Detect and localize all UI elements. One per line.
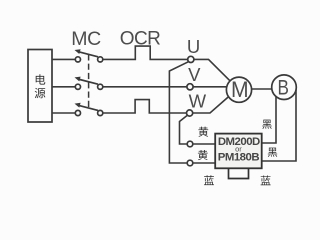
svg-text:V: V	[188, 64, 201, 85]
wire T-phase: source box to MC pole 3	[52, 112, 75, 114]
wire R-phase: source box to MC pole 1	[52, 58, 75, 60]
label black 黑 (top)	[262, 120, 271, 129]
svg-text:PM180B: PM180B	[218, 152, 260, 164]
wire + OCR heater element phase U	[103, 46, 188, 59]
wire MC to node V (straight, no heater)	[103, 86, 187, 88]
label yellow 黄 (top)	[198, 127, 208, 137]
wire terminal 2 to sensor box	[193, 162, 215, 164]
power source box 电源	[28, 50, 52, 123]
sensor box DM200D / PM180B	[215, 134, 262, 169]
wire node V to motor	[193, 86, 227, 88]
yellow lead terminal circle 1	[187, 141, 193, 147]
label yellow 黄 (bottom)	[198, 150, 208, 160]
label 源	[35, 88, 46, 98]
sensor bottom connector tab	[229, 168, 249, 178]
motor M circle	[226, 77, 251, 102]
node V terminal circle	[187, 84, 193, 90]
MC mechanical linkage (dashed)	[88, 54, 90, 109]
brake B circle	[272, 75, 297, 100]
label black 黑 (bottom)	[268, 148, 277, 157]
node U terminal circle	[188, 56, 194, 62]
wire S-phase: source box to MC pole 2	[52, 86, 75, 88]
wire node U to motor (bend)	[194, 59, 230, 81]
wire node W to motor (bend)	[193, 96, 230, 113]
tap wire node U down to sensor (yellow lead 2)	[169, 62, 188, 163]
svg-text:W: W	[189, 91, 207, 112]
contactor MC pole 3	[75, 103, 103, 116]
black lead 1: brake to sensor box	[262, 97, 276, 143]
black lead 2: brake to sensor box	[262, 90, 296, 161]
contactor MC pole 1	[75, 49, 103, 62]
label blue 蓝 (right)	[261, 175, 271, 185]
wire terminal 1 to sensor box	[193, 143, 215, 145]
wire motor to brake B	[252, 88, 272, 90]
yellow lead terminal circle 2	[187, 160, 193, 166]
svg-text:B: B	[278, 76, 289, 100]
contactor MC pole 2	[75, 77, 103, 90]
label blue 蓝 (left)	[204, 175, 214, 185]
svg-text:U: U	[187, 36, 200, 57]
svg-text:MC: MC	[71, 28, 101, 50]
node W terminal circle	[187, 110, 193, 116]
label 电	[36, 74, 46, 84]
svg-text:M: M	[231, 77, 249, 102]
wire + OCR heater element phase W	[103, 100, 187, 113]
tap wire node W down to sensor (yellow lead 1)	[180, 115, 188, 144]
